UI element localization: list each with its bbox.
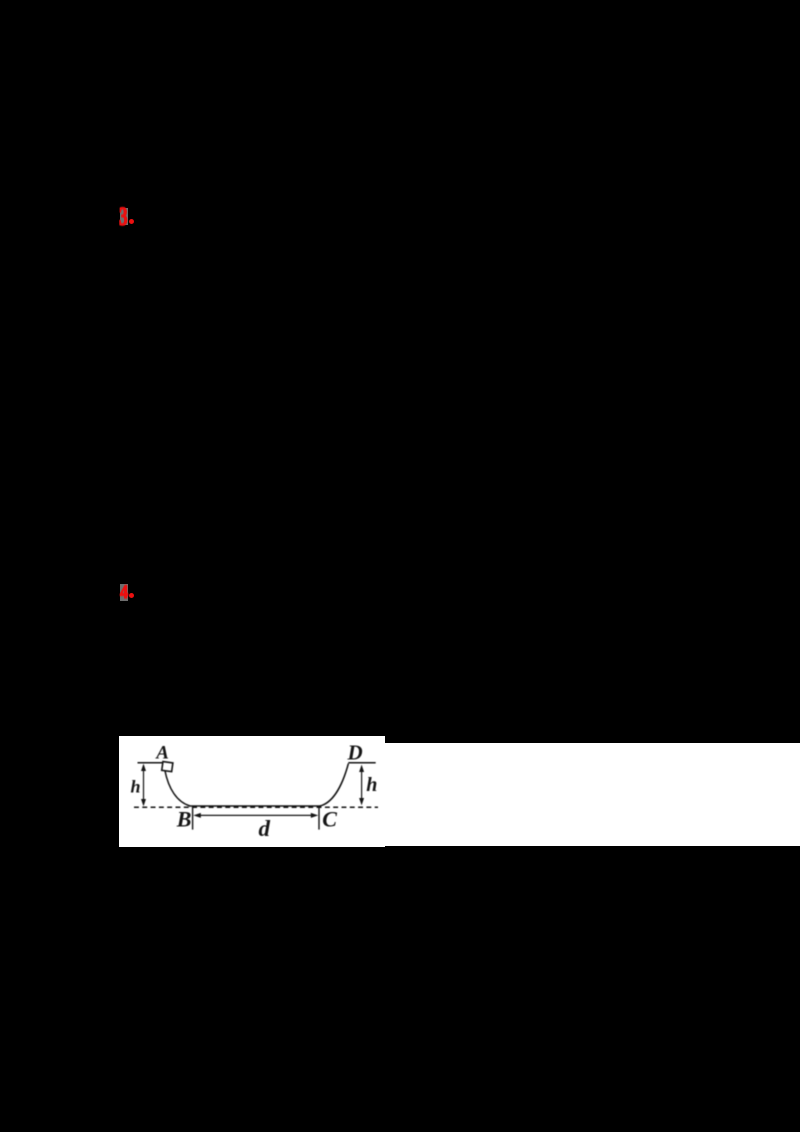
arrowheads: left h arrow xyxy=(141,764,146,771)
bottom line B to C xyxy=(189,805,321,807)
left curve A to B xyxy=(165,770,190,806)
d arrow shaft xyxy=(196,814,316,816)
svg-text:d: d xyxy=(259,816,271,841)
white figure background (opaque image area) xyxy=(119,736,385,847)
problem number 4. (red) xyxy=(120,584,129,601)
B tick xyxy=(192,806,194,829)
figure SVG xyxy=(119,736,385,847)
arrowheads: d arrow xyxy=(193,813,201,818)
right h arrow shaft xyxy=(361,767,363,803)
left h arrow shaft xyxy=(143,766,145,804)
svg-text:D: D xyxy=(347,741,363,765)
dashed ground line xyxy=(134,806,378,808)
white line-box band to right edge xyxy=(385,743,800,847)
svg-text:C: C xyxy=(322,806,337,831)
svg-text:h: h xyxy=(366,774,377,796)
arrowheads: right h arrow xyxy=(359,765,364,772)
C tick xyxy=(318,806,320,829)
right curve C to D xyxy=(320,764,348,807)
svg-text:h: h xyxy=(131,777,141,797)
block on track at A xyxy=(162,762,173,772)
problem number 3. (red) xyxy=(120,208,129,225)
right ledge line xyxy=(348,762,375,764)
svg-text:B: B xyxy=(176,807,192,832)
svg-text:A: A xyxy=(155,743,169,764)
left ledge line xyxy=(138,762,168,764)
